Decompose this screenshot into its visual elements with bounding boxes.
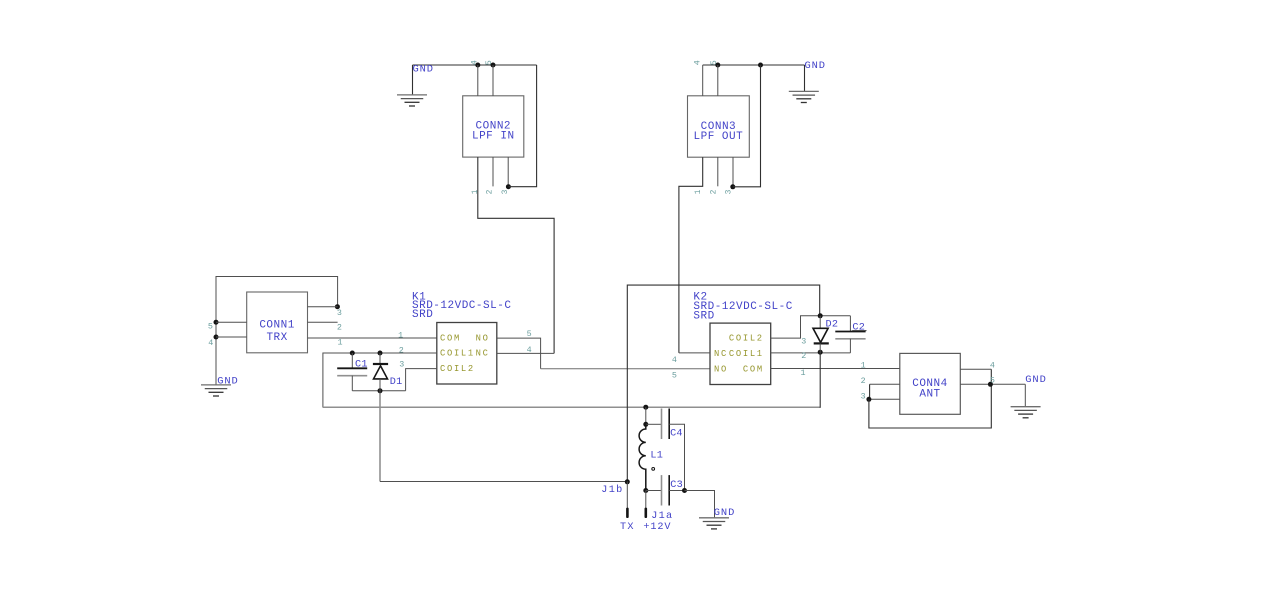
svg-text:LPF IN: LPF IN bbox=[472, 130, 515, 142]
svg-text:GND: GND bbox=[1025, 374, 1046, 386]
svg-text:LPF OUT: LPF OUT bbox=[694, 131, 744, 143]
svg-text:4: 4 bbox=[990, 361, 995, 371]
svg-text:5: 5 bbox=[709, 60, 719, 65]
svg-text:4: 4 bbox=[672, 355, 677, 365]
svg-text:L1: L1 bbox=[650, 451, 663, 462]
svg-text:NO: NO bbox=[714, 364, 728, 374]
svg-text:2: 2 bbox=[486, 189, 495, 194]
svg-text:1: 1 bbox=[398, 330, 403, 340]
svg-text:GND: GND bbox=[217, 376, 238, 388]
svg-text:3: 3 bbox=[725, 189, 734, 194]
svg-text:C3: C3 bbox=[670, 480, 683, 491]
svg-text:2: 2 bbox=[801, 351, 806, 361]
svg-text:D2: D2 bbox=[826, 319, 839, 330]
svg-text:1: 1 bbox=[471, 189, 480, 194]
svg-text:3: 3 bbox=[861, 391, 866, 401]
svg-text:COIL1: COIL1 bbox=[440, 349, 475, 359]
svg-text:C2: C2 bbox=[852, 323, 865, 334]
svg-text:COIL1: COIL1 bbox=[729, 349, 764, 359]
svg-text:COIL2: COIL2 bbox=[729, 334, 764, 344]
svg-text:NO: NO bbox=[476, 333, 490, 343]
svg-text:2: 2 bbox=[861, 376, 866, 386]
svg-text:3: 3 bbox=[501, 189, 510, 194]
svg-text:3: 3 bbox=[801, 336, 806, 346]
svg-text:GND: GND bbox=[805, 60, 826, 72]
svg-text:1: 1 bbox=[338, 337, 343, 347]
svg-text:2: 2 bbox=[337, 323, 342, 333]
svg-text:5: 5 bbox=[484, 60, 494, 65]
svg-text:SRD: SRD bbox=[412, 309, 433, 321]
svg-text:NC: NC bbox=[476, 349, 490, 359]
svg-text:ANT: ANT bbox=[919, 389, 940, 401]
svg-text:2: 2 bbox=[399, 345, 404, 355]
svg-text:TX: TX bbox=[620, 522, 635, 533]
svg-text:COM: COM bbox=[440, 333, 461, 343]
svg-text:1: 1 bbox=[861, 361, 866, 371]
svg-text:TRX: TRX bbox=[266, 332, 287, 344]
svg-text:1: 1 bbox=[801, 368, 806, 378]
svg-text:4: 4 bbox=[208, 338, 213, 348]
svg-text:C4: C4 bbox=[670, 428, 683, 439]
svg-text:D1: D1 bbox=[390, 377, 403, 388]
svg-text:J1b: J1b bbox=[601, 484, 623, 496]
svg-text:5: 5 bbox=[527, 329, 532, 339]
svg-text:C1: C1 bbox=[355, 359, 368, 370]
svg-text:GND: GND bbox=[413, 64, 434, 76]
svg-text:2: 2 bbox=[710, 189, 719, 194]
svg-text:1: 1 bbox=[694, 189, 703, 194]
svg-text:CONN1: CONN1 bbox=[259, 320, 295, 332]
svg-text:GND: GND bbox=[714, 507, 735, 519]
svg-text:SRD: SRD bbox=[693, 311, 714, 323]
svg-text:5: 5 bbox=[990, 376, 995, 386]
svg-text:COIL2: COIL2 bbox=[440, 364, 475, 374]
svg-text:5: 5 bbox=[672, 370, 677, 380]
svg-text:4: 4 bbox=[692, 60, 702, 65]
svg-text:4: 4 bbox=[469, 60, 479, 65]
svg-text:COM: COM bbox=[743, 364, 764, 374]
svg-text:4: 4 bbox=[527, 345, 532, 355]
svg-text:3: 3 bbox=[399, 360, 404, 370]
svg-text:J1a: J1a bbox=[651, 511, 673, 522]
svg-text:3: 3 bbox=[337, 308, 342, 318]
svg-text:+12V: +12V bbox=[643, 522, 671, 533]
svg-text:5: 5 bbox=[208, 322, 213, 332]
svg-text:NC: NC bbox=[714, 349, 728, 359]
